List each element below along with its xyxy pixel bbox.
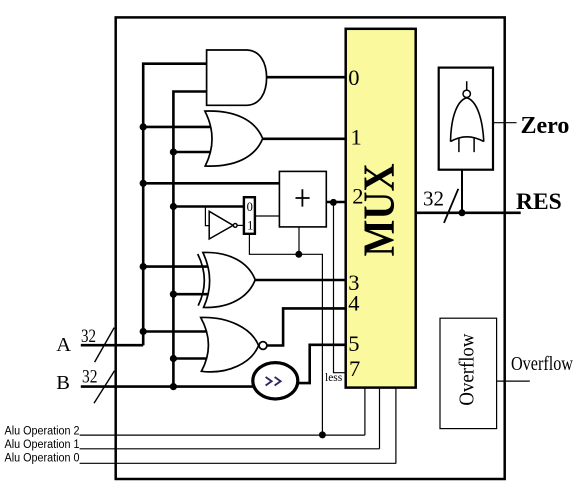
svg-text:Overflow: Overflow (455, 333, 479, 405)
svg-text:Alu Operation 0: Alu Operation 0 (5, 453, 80, 465)
svg-text:5: 5 (348, 331, 359, 356)
svg-text:32: 32 (82, 367, 98, 388)
svg-text:0: 0 (348, 65, 359, 90)
svg-text:32: 32 (423, 187, 444, 211)
svg-text:Zero: Zero (521, 113, 570, 139)
svg-text:Alu Operation 1: Alu Operation 1 (5, 439, 80, 451)
svg-text:4: 4 (348, 291, 359, 316)
svg-text:1: 1 (351, 125, 362, 150)
svg-text:A: A (56, 334, 71, 356)
svg-text:32: 32 (81, 326, 96, 347)
svg-text:Alu Operation 2: Alu Operation 2 (5, 425, 80, 437)
svg-text:B: B (56, 372, 70, 394)
svg-text:less: less (325, 372, 343, 384)
svg-text:7: 7 (349, 356, 360, 381)
svg-text:1: 1 (247, 219, 253, 233)
svg-text:MUX: MUX (354, 163, 404, 256)
svg-text:2: 2 (352, 184, 363, 209)
svg-text:Overflow: Overflow (511, 353, 573, 375)
svg-text:0: 0 (247, 200, 253, 214)
svg-text:RES: RES (516, 189, 562, 215)
